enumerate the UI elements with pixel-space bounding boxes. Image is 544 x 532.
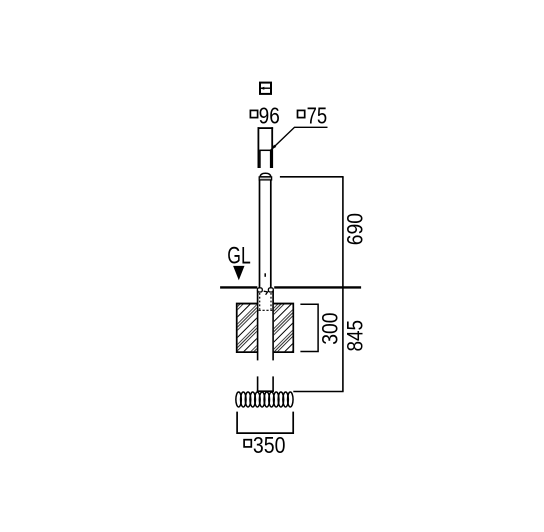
svg-text:300: 300	[318, 312, 343, 344]
dimension connector top (cap to dim line)	[280, 176, 344, 178]
buried tube right wall	[272, 314, 274, 361]
dimension connector bottom	[293, 391, 343, 393]
svg-text:96: 96	[259, 103, 280, 129]
buried tube left wall	[257, 314, 259, 361]
head detail (square post top, section)	[258, 127, 274, 168]
tube lower part after break, right	[272, 376, 274, 391]
foundation block outline	[237, 304, 257, 353]
top-view cap square	[259, 83, 272, 94]
GL arrow	[233, 266, 244, 280]
right dimension line	[342, 177, 344, 392]
hatch left panel	[238, 305, 257, 352]
label square for 350	[244, 440, 251, 447]
sleeve socket below ground	[257, 288, 273, 314]
lock hole mark on post	[264, 273, 266, 277]
svg-text:GL: GL	[227, 243, 250, 270]
ground line right	[274, 286, 361, 288]
dimension 300 bracket	[300, 304, 318, 351]
tube bottom edge	[257, 390, 274, 392]
svg-text:845: 845	[342, 320, 367, 352]
svg-text:690: 690	[342, 213, 367, 245]
tube lower part after break, left	[257, 376, 259, 391]
leader line from 75	[271, 127, 328, 150]
svg-text:350: 350	[253, 432, 286, 458]
post body right wall	[270, 180, 272, 288]
post cap dome	[260, 173, 271, 177]
hatch right panel	[274, 305, 293, 352]
dimension 350 bracket	[237, 412, 293, 434]
ground line left	[220, 286, 257, 288]
cap band	[259, 177, 271, 180]
post body left wall	[259, 180, 261, 288]
gravel ellipse chain	[236, 392, 293, 407]
label square for 96	[250, 110, 257, 117]
svg-text:75: 75	[307, 103, 328, 129]
label square for 75	[298, 110, 305, 117]
